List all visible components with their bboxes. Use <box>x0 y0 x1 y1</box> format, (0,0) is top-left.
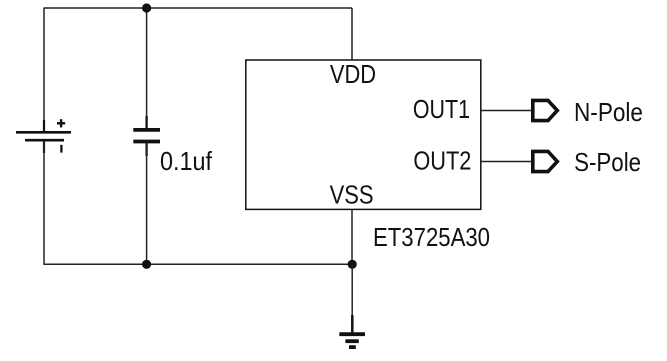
wire: OUT1 pin <box>481 110 531 112</box>
svg-text:S-Pole: S-Pole <box>574 147 641 177</box>
svg-text:ET3725A30: ET3725A30 <box>373 222 490 252</box>
wire: battery to bottom rail <box>43 141 45 265</box>
wire: battery branch down <box>43 8 45 131</box>
svg-text:OUT1: OUT1 <box>413 94 470 124</box>
wire: bottom rail <box>44 263 353 265</box>
wire: capacitor branch down <box>146 8 148 129</box>
port symbol S-Pole <box>533 151 558 171</box>
wire: VSS pin <box>351 209 353 264</box>
junction dot at capacitor bottom <box>142 260 151 269</box>
wire: OUT2 pin <box>481 161 531 163</box>
svg-text:OUT2: OUT2 <box>413 146 471 176</box>
junction dot at capacitor top <box>142 3 151 12</box>
IC U1 box <box>246 60 481 209</box>
svg-text:VSS: VSS <box>330 179 374 209</box>
svg-text:0.1uf: 0.1uf <box>160 146 213 176</box>
wire: VDD pin <box>351 8 353 60</box>
wire: ground stem <box>351 264 353 316</box>
port symbol N-Pole <box>533 100 558 120</box>
svg-text:N-Pole: N-Pole <box>574 97 643 127</box>
junction dot at ground node <box>348 260 357 269</box>
ground <box>339 315 365 347</box>
wire: capacitor to bottom rail <box>146 143 148 264</box>
wire: top rail <box>44 7 353 9</box>
svg-text:VDD: VDD <box>330 59 376 89</box>
battery BT1 <box>16 119 71 153</box>
capacitor C1 <box>133 116 160 156</box>
